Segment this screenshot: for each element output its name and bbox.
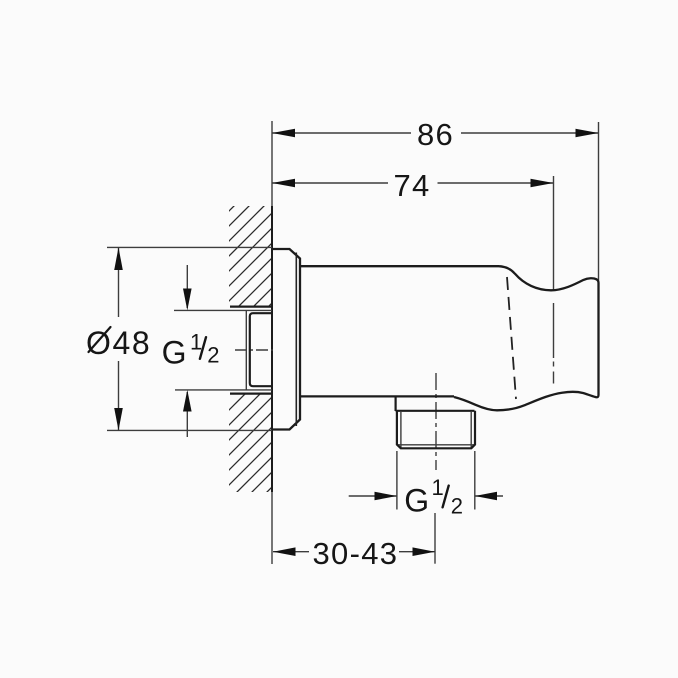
- svg-text:2: 2: [207, 343, 219, 368]
- svg-text:1: 1: [190, 329, 202, 354]
- svg-text:2: 2: [451, 494, 463, 519]
- svg-text:74: 74: [394, 168, 431, 203]
- svg-text:1: 1: [432, 475, 444, 500]
- svg-text:G: G: [162, 335, 187, 371]
- svg-text:86: 86: [417, 117, 454, 152]
- svg-text:30-43: 30-43: [313, 536, 399, 571]
- svg-text:G: G: [404, 483, 429, 519]
